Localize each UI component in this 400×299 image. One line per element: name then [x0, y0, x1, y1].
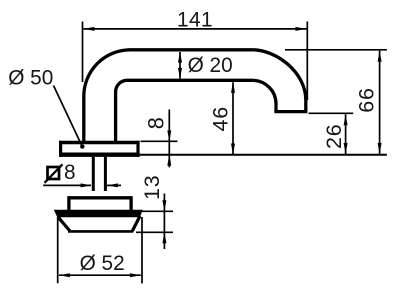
dim 46 down arrow — [231, 144, 235, 155]
dim 141 left arrow — [83, 27, 94, 31]
svg-text:Ø 52: Ø 52 — [80, 252, 125, 275]
dim 13 up arrow — [162, 232, 166, 243]
leader line for rose diameter — [54, 86, 83, 147]
dim 66 line — [379, 51, 381, 154]
dim O52 right extension line — [141, 217, 143, 284]
dim 8 square left line with arrow — [43, 184, 91, 186]
dim 8 rose extension line — [141, 140, 178, 142]
square-section symbol box — [48, 167, 60, 179]
lever handle end cap — [274, 110, 307, 113]
dim 141 left extension line — [82, 22, 84, 83]
rose top edge — [59, 141, 140, 144]
dim O52 line — [59, 274, 141, 276]
dim 26 up arrow — [344, 114, 348, 125]
dim 141 line — [83, 28, 306, 30]
svg-text:Ø 20: Ø 20 — [188, 54, 233, 77]
dim 13 down arrow — [162, 200, 166, 211]
svg-text:13: 13 — [140, 174, 164, 200]
dim 141 right extension line — [306, 22, 308, 101]
svg-text:46: 46 — [209, 106, 233, 132]
svg-text:8: 8 — [144, 117, 169, 129]
dim 66 up arrow — [378, 51, 382, 62]
dim 26 line — [345, 114, 347, 154]
dim 66 down arrow — [378, 143, 382, 154]
dim 8 rose line — [168, 110, 170, 168]
dim 8 square left-pointing arrow — [107, 183, 118, 187]
dim 13 bottom extension line — [136, 231, 173, 233]
dim 66 top extension line — [285, 49, 387, 51]
spindle left line — [92, 157, 95, 191]
dim O20 double arrow line — [179, 52, 181, 79]
dim 46 up arrow — [231, 82, 235, 93]
dim O20 up arrow — [178, 52, 182, 63]
rose left edge — [59, 141, 62, 157]
mounting rose top rectangle — [69, 198, 131, 212]
dim O52 right arrow — [130, 273, 141, 277]
svg-text:8: 8 — [64, 161, 76, 184]
spindle right line — [104, 157, 107, 191]
dim 8 square right-pointing arrow — [81, 183, 92, 187]
dim O20 down arrow — [178, 68, 182, 79]
square-section symbol diagonal — [45, 164, 63, 183]
lever handle right bend inner — [252, 80, 276, 111]
svg-text:66: 66 — [355, 87, 379, 113]
dim 46 line — [232, 82, 234, 154]
svg-text:141: 141 — [177, 8, 213, 31]
dim 26 down arrow — [344, 143, 348, 154]
rose right edge — [136, 141, 139, 157]
mounting rose skirt right slant — [132, 216, 140, 231]
lever handle inner contour — [116, 80, 253, 144]
mounting rose skirt left slant — [58, 217, 70, 231]
dim 26 extension line — [309, 112, 354, 114]
lever handle outer contour — [84, 50, 253, 144]
dim 141 right arrow — [295, 27, 306, 31]
dim 8 rose down arrow — [167, 130, 171, 141]
svg-text:26: 26 — [322, 123, 346, 149]
svg-text:Ø 50: Ø 50 — [8, 67, 53, 90]
mounting rose flange bar — [55, 210, 142, 216]
dim 13 line — [163, 194, 165, 250]
rose bottom edge — [59, 153, 140, 157]
dim O52 left extension line — [57, 218, 59, 283]
leader dot — [80, 144, 84, 148]
mounting rose skirt bottom edge — [68, 230, 133, 233]
lever handle right bend outer — [252, 50, 305, 112]
dim 8 rose up arrow — [167, 155, 171, 166]
reference plane line under rose — [140, 154, 387, 156]
dim 8 square right arrow tail — [107, 184, 121, 186]
dim O52 left arrow — [59, 273, 70, 277]
dim 13 top extension line — [142, 210, 174, 212]
